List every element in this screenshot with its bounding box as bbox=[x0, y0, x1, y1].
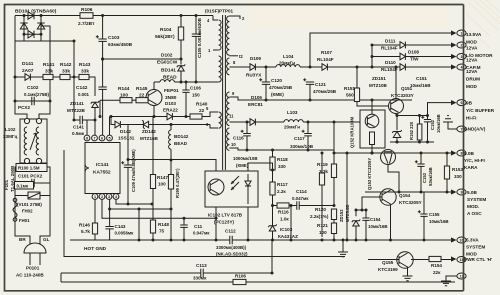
capacitor C153 bbox=[415, 160, 425, 166]
wire pin8 to D109 bbox=[229, 66, 250, 68]
svg-text:R116: R116 bbox=[278, 210, 289, 215]
wire pin8 link bbox=[86, 120, 88, 135]
connector pin PWR CTL bbox=[457, 257, 466, 263]
label D111 bbox=[385, 39, 396, 44]
connector pin 9V bbox=[457, 100, 466, 106]
svg-text:C120: C120 bbox=[271, 78, 282, 83]
node R118 bottom bbox=[271, 169, 274, 172]
capacitor C117 bbox=[302, 130, 312, 136]
wire C109 top bbox=[127, 125, 129, 166]
capacitor C106 bbox=[182, 90, 189, 92]
pin 10 label bbox=[231, 142, 236, 147]
svg-text:6: 6 bbox=[461, 101, 463, 105]
svg-text:SYSTEM: SYSTEM bbox=[466, 245, 485, 250]
svg-text:RU3YX: RU3YX bbox=[246, 73, 262, 78]
label CAPM bbox=[466, 65, 481, 70]
label C112 value bbox=[216, 245, 246, 250]
label C117 value bbox=[290, 144, 314, 149]
capacitor C11 bbox=[180, 225, 188, 227]
label 9V bbox=[466, 101, 473, 106]
label R142 bbox=[60, 62, 72, 68]
svg-text:D110: D110 bbox=[385, 60, 396, 65]
label C155 value bbox=[429, 219, 449, 224]
svg-text:MOD: MOD bbox=[466, 40, 478, 45]
capacitor C109 bbox=[121, 161, 132, 167]
svg-text:R106: R106 bbox=[81, 7, 93, 13]
pin3 tee dots bbox=[108, 203, 153, 211]
connector pin 12 bbox=[457, 273, 466, 279]
svg-text:C117: C117 bbox=[294, 136, 305, 141]
wire bias bottom rail bbox=[390, 141, 434, 143]
diode D109 bbox=[250, 64, 255, 71]
node R148 bottom bbox=[152, 239, 155, 242]
svg-text:20мкГн: 20мкГн bbox=[284, 125, 300, 130]
label FEP01 bbox=[164, 88, 179, 94]
resistor R106b bbox=[233, 279, 246, 284]
svg-text:R154: R154 bbox=[431, 263, 442, 268]
resistor R141 bbox=[43, 74, 53, 79]
capacitor C143 bbox=[105, 227, 113, 229]
svg-text:ZD142: ZD142 bbox=[142, 129, 156, 134]
wire R116-C114 bbox=[289, 205, 297, 207]
arrow 13.5VA bbox=[451, 30, 457, 35]
svg-text:KTC3203Y: KTC3203Y bbox=[391, 93, 414, 98]
svg-text:100: 100 bbox=[319, 230, 327, 235]
svg-text:C101 PCX2: C101 PCX2 bbox=[18, 174, 43, 179]
svg-text:R144: R144 bbox=[118, 86, 130, 92]
svg-text:10: 10 bbox=[231, 142, 236, 147]
svg-text:C102: C102 bbox=[27, 85, 39, 91]
wire R151 to Q151 base bbox=[357, 102, 389, 107]
label R120 bbox=[315, 207, 326, 212]
wire C103 bottom bbox=[102, 41, 104, 59]
wire LED bottom bbox=[247, 207, 249, 240]
label R106 bbox=[81, 7, 93, 13]
svg-text:ҒН02: ҒН02 bbox=[22, 209, 33, 214]
capacitor C152 bbox=[421, 116, 431, 122]
transformer primary winding mid bbox=[219, 56, 222, 82]
capacitor C101 bbox=[32, 179, 34, 187]
label R147 bbox=[157, 175, 168, 180]
label L102 bbox=[5, 127, 16, 132]
label C152 vertical bbox=[430, 119, 435, 130]
svg-text:КА431AZ: КА431AZ bbox=[278, 234, 298, 239]
resistor R140 bbox=[190, 114, 202, 119]
wire pin5 up bbox=[109, 117, 111, 136]
svg-text:MTZ16В: MTZ16В bbox=[140, 136, 159, 141]
svg-text:470мк/25В: 470мк/25В bbox=[269, 85, 293, 90]
label R153 bbox=[452, 167, 463, 172]
wire R142-R143 bbox=[70, 76, 79, 78]
wire zd152 link bbox=[356, 209, 366, 211]
wire ZD151 top bbox=[396, 116, 398, 131]
label R117 value bbox=[277, 189, 286, 194]
bridge diode top bbox=[28, 12, 34, 19]
svg-text:10мк/16В: 10мк/16В bbox=[429, 219, 449, 224]
svg-text:12VA: 12VA bbox=[466, 46, 478, 51]
label L102 value bbox=[3, 134, 18, 139]
label R140 value bbox=[199, 108, 205, 114]
label IC102 value bbox=[214, 220, 235, 225]
resistor R145 bbox=[136, 98, 148, 103]
wire D107 out bbox=[327, 66, 400, 68]
wire C117 bottom bbox=[307, 136, 309, 150]
label PCX2 bbox=[18, 105, 30, 110]
wire top DC rail right bbox=[93, 15, 213, 17]
resistor R147 bbox=[150, 175, 155, 189]
label BD142 bbox=[174, 134, 189, 139]
diode D110 bbox=[400, 64, 405, 71]
label IC102 bbox=[208, 213, 243, 218]
label R154 bbox=[431, 263, 442, 268]
svg-text:MOD: MOD bbox=[466, 84, 478, 89]
x139 nodes bbox=[138, 208, 141, 242]
resistor R117 bbox=[270, 182, 275, 195]
label C113 value bbox=[193, 276, 207, 281]
resistor R151 bbox=[354, 88, 359, 102]
wire R148 bottom bbox=[152, 233, 154, 240]
label C120 kme bbox=[271, 92, 284, 97]
wire 13.5VA branch bbox=[310, 33, 453, 67]
label C154 bbox=[370, 217, 381, 222]
label Q154 bbox=[399, 193, 411, 198]
capacitor C103 bbox=[96, 35, 107, 41]
connector pin 12VA drum bbox=[457, 64, 466, 70]
wire Q154 base bbox=[362, 197, 382, 210]
resistor R152 in box bbox=[370, 132, 375, 145]
resistor R106 bbox=[80, 13, 93, 19]
label 5.0V sys bbox=[467, 190, 478, 195]
svg-text:R100 1.5M: R100 1.5M bbox=[18, 166, 40, 171]
wire C116 top bbox=[246, 122, 248, 134]
wire opto emitter bbox=[215, 207, 217, 240]
wire aux winding bottom bbox=[210, 125, 218, 129]
svg-text:56k(2Вт): 56k(2Вт) bbox=[155, 34, 175, 40]
wire C103 top bbox=[102, 16, 104, 40]
ground bars Q155 bbox=[403, 276, 413, 281]
label R142 value bbox=[62, 69, 70, 75]
optocoupler IC102 box bbox=[205, 171, 258, 207]
wire to D111 bbox=[372, 44, 400, 46]
label Q155 value bbox=[378, 267, 398, 272]
svg-text:R121: R121 bbox=[317, 223, 328, 228]
diode D141 bbox=[25, 74, 30, 81]
svg-text:SYSTEM: SYSTEM bbox=[467, 197, 486, 202]
label C103 value bbox=[108, 42, 133, 48]
label C101 bbox=[18, 174, 43, 179]
resistor R148 bbox=[150, 220, 155, 233]
top rail junctions bbox=[101, 14, 197, 17]
wire c113 to ic103 bbox=[271, 240, 273, 273]
svg-text:HOT GND: HOT GND bbox=[84, 246, 107, 252]
label R118 bbox=[277, 157, 288, 162]
transformer pin 1 stub bbox=[213, 49, 219, 51]
svg-text:MTZ10В: MTZ10В bbox=[369, 83, 388, 88]
label C120 value bbox=[269, 85, 293, 90]
label IC103 value bbox=[278, 234, 298, 239]
transformer primary winding upper bbox=[219, 20, 222, 50]
label PWR CTL bbox=[464, 257, 492, 262]
ground symbol last pin bbox=[446, 276, 457, 281]
label C115 value bbox=[233, 156, 258, 161]
label P0101 value bbox=[16, 273, 44, 278]
wire C105 top bbox=[195, 16, 197, 35]
svg-text:5.3VA: 5.3VA bbox=[466, 238, 479, 243]
svg-text:ZD141: ZD141 bbox=[70, 101, 84, 106]
wire C142 rail top bbox=[102, 59, 104, 87]
wire to transformer pin 4 bbox=[213, 16, 218, 21]
wire R117 top bbox=[272, 170, 274, 182]
svg-text:(РС123Y): (РС123Y) bbox=[214, 220, 235, 225]
label 12VA capm bbox=[466, 58, 478, 63]
label GND AV bbox=[464, 127, 486, 132]
label F101 vertical bbox=[4, 179, 9, 190]
label Q151 value bbox=[391, 93, 414, 98]
label GL bbox=[43, 237, 50, 242]
diode D111 bbox=[400, 42, 405, 49]
label R118 value bbox=[278, 164, 286, 169]
opto junctions bbox=[215, 217, 250, 242]
svg-text:F101: F101 bbox=[4, 179, 9, 190]
wire pin10 return bbox=[229, 148, 334, 150]
wire C109 bottom bbox=[127, 167, 129, 204]
label D109 bbox=[250, 56, 261, 61]
capacitor C121 bbox=[303, 78, 314, 84]
svg-text:C153: C153 bbox=[422, 172, 427, 183]
svg-text:R119: R119 bbox=[317, 162, 328, 167]
node R104 D102 bbox=[101, 58, 182, 61]
wire R147-R148 bbox=[152, 189, 154, 221]
wire x139 stub bbox=[138, 209, 140, 240]
svg-text:10мк/16В: 10мк/16В bbox=[436, 114, 441, 133]
label R148 value bbox=[159, 229, 165, 234]
optocoupler IC102 led wires bbox=[247, 174, 249, 204]
wire 5V line bbox=[334, 152, 453, 154]
svg-text:BEAD: BEAD bbox=[174, 141, 188, 146]
node C121 top bbox=[309, 66, 312, 69]
svg-text:D106: D106 bbox=[251, 95, 262, 100]
wire C155 bottom bbox=[423, 216, 425, 240]
label ZD151 value bbox=[369, 83, 388, 88]
label C11 value bbox=[193, 231, 210, 236]
wire pin5 jog bbox=[111, 117, 115, 125]
wire C101 bridge bbox=[15, 182, 32, 184]
label R152 vertical bbox=[409, 121, 414, 140]
IC141 top pin 5 bbox=[107, 135, 113, 141]
label L103 value bbox=[284, 125, 300, 130]
label C106 value bbox=[192, 93, 200, 98]
label Q153 vertical bbox=[367, 158, 372, 190]
svg-text:0.0056мк: 0.0056мк bbox=[115, 231, 135, 236]
wire ZD151 bottom bbox=[396, 138, 398, 143]
bridge diode bottom bbox=[28, 31, 34, 38]
wire left bottom link bbox=[60, 273, 62, 282]
svg-text:Т1.6AL 250В: Т1.6AL 250В bbox=[10, 166, 15, 192]
wire R143 to Vcc node bbox=[89, 77, 95, 96]
node gnd stub bbox=[342, 239, 345, 242]
wire gate feed bbox=[100, 99, 120, 101]
label C114 bbox=[296, 189, 307, 194]
wire to L102 pin2 bbox=[39, 101, 50, 118]
label HI-FI bbox=[466, 116, 476, 121]
arrow 12VA motor bbox=[451, 42, 457, 47]
label C102 bbox=[27, 85, 39, 91]
label BD141 BEAD bbox=[163, 75, 177, 81]
svg-text:7: 7 bbox=[93, 137, 95, 141]
wire gate rail bbox=[99, 100, 101, 116]
svg-text:2.2к(1%): 2.2к(1%) bbox=[310, 214, 329, 219]
wire D109 out bbox=[255, 66, 266, 68]
svg-text:33k: 33k bbox=[45, 69, 53, 75]
diode D142 bbox=[115, 121, 120, 128]
pin 3 label bbox=[206, 122, 209, 127]
label C142 bbox=[76, 85, 88, 91]
capacitor C105 bbox=[192, 34, 200, 36]
wire R153 top bbox=[446, 153, 448, 166]
svg-text:22: 22 bbox=[199, 108, 205, 114]
svg-text:C121: C121 bbox=[315, 82, 326, 87]
svg-text:C142: C142 bbox=[76, 85, 88, 91]
wire Q151 emitter bbox=[395, 114, 397, 116]
transformer secondary winding 2 bbox=[227, 58, 230, 75]
svg-text:RL104F: RL104F bbox=[381, 67, 398, 72]
label R147 value bbox=[158, 182, 166, 187]
capacitor C114 bbox=[297, 201, 299, 209]
label P0101 bbox=[26, 266, 40, 271]
label A OSC bbox=[467, 211, 482, 216]
svg-text:3: 3 bbox=[461, 55, 463, 59]
label R119 value bbox=[319, 169, 328, 174]
label C112 part bbox=[216, 252, 248, 257]
wire C141 right bbox=[82, 119, 95, 121]
wire R120-R121 bbox=[333, 220, 335, 224]
node C120 top bbox=[265, 66, 268, 69]
svg-text:D111: D111 bbox=[385, 39, 396, 44]
pin 9 label bbox=[232, 91, 235, 96]
svg-text:10мк/16В: 10мк/16В bbox=[368, 224, 388, 229]
svg-text:C152: C152 bbox=[430, 119, 435, 130]
svg-text:(V101 275В): (V101 275В) bbox=[17, 202, 42, 207]
IC141 bottom pin 2 bbox=[99, 194, 105, 200]
wire L103 out bbox=[303, 121, 360, 123]
label D141 bbox=[22, 61, 34, 67]
label D106 value bbox=[248, 102, 263, 107]
wire opto collector bbox=[128, 160, 216, 172]
label BR bbox=[19, 237, 26, 242]
label C106 bbox=[190, 86, 201, 91]
node R199 bottom bbox=[170, 159, 173, 242]
choke L102 pin a bbox=[24, 118, 29, 123]
label 5.3VA bbox=[466, 238, 479, 243]
arrow 12VA capm bbox=[451, 54, 457, 59]
label SYSTEM bbox=[467, 197, 486, 202]
svg-text:0.047мк: 0.047мк bbox=[292, 196, 309, 201]
capacitor C155 bbox=[418, 210, 428, 216]
capacitor C112 bbox=[230, 236, 232, 244]
IC141 bottom pin 3 bbox=[106, 194, 112, 200]
svg-text:Q154: Q154 bbox=[399, 193, 411, 198]
choke L102 pin d bbox=[36, 158, 41, 163]
5V system junctions bbox=[398, 191, 449, 194]
svg-text:D142: D142 bbox=[120, 129, 131, 134]
common rail junctions bbox=[290, 239, 336, 242]
wire R199 bottom bbox=[170, 189, 172, 240]
label R144 bbox=[118, 86, 130, 92]
bridge corner junctions bbox=[23, 14, 43, 36]
wire R145-gate bbox=[147, 99, 149, 101]
capacitor C154 bbox=[362, 218, 369, 220]
svg-text:Y/C, HI-FI: Y/C, HI-FI bbox=[464, 158, 485, 163]
svg-text:C155: C155 bbox=[429, 212, 440, 217]
svg-text:T/W: T/W bbox=[410, 57, 419, 62]
label C143 bbox=[115, 224, 126, 229]
svg-text:33k: 33k bbox=[81, 69, 89, 75]
label C152 value vertical bbox=[436, 114, 441, 133]
arrow 5V yc bbox=[451, 150, 457, 155]
label C121 value bbox=[313, 89, 337, 94]
wire C106 top bbox=[185, 82, 187, 90]
label YC BUFFER bbox=[466, 108, 495, 113]
svg-text:R142: R142 bbox=[60, 62, 72, 68]
bridge BD101 outline bbox=[24, 16, 41, 35]
label R143 value bbox=[81, 69, 89, 75]
svg-text:Q155: Q155 bbox=[382, 260, 394, 265]
connector pin 5V system bbox=[457, 189, 466, 195]
wire D111 out bbox=[405, 44, 453, 46]
connector pin 5.3VA bbox=[457, 237, 466, 243]
wire C11 bottom bbox=[183, 227, 185, 240]
5V rail junctions bbox=[246, 121, 336, 124]
wire R153 bottom bbox=[446, 179, 448, 192]
D108 junction bbox=[371, 44, 374, 59]
5V gnd junctions bbox=[246, 149, 310, 152]
svg-text:2: 2 bbox=[461, 44, 463, 48]
label SYSTEM2 bbox=[466, 245, 485, 250]
svg-text:330: 330 bbox=[454, 174, 462, 179]
label 12VA drum bbox=[466, 69, 478, 74]
IC141 box bbox=[85, 143, 120, 194]
svg-text:D108: D108 bbox=[408, 50, 419, 55]
wire C154 top bbox=[365, 210, 367, 218]
node fb x334 bbox=[333, 204, 336, 207]
wire ZD152 bottom bbox=[355, 226, 357, 240]
wire AC to D141 bbox=[15, 76, 25, 78]
startup line junctions bbox=[14, 76, 76, 79]
wire C121 bottom bbox=[309, 84, 311, 100]
svg-text:560: 560 bbox=[346, 93, 354, 98]
svg-text:11: 11 bbox=[229, 114, 234, 119]
capacitor C102 bbox=[32, 97, 34, 105]
wire R152 top bbox=[419, 116, 421, 125]
wire D141-R141 bbox=[30, 76, 43, 78]
svg-text:2.7/2Вт: 2.7/2Вт bbox=[78, 21, 95, 27]
node R117 IC103 bbox=[271, 204, 274, 207]
svg-text:0.1мк: 0.1мк bbox=[17, 183, 29, 188]
label D102 bbox=[161, 53, 173, 59]
label 12VA motor bbox=[466, 46, 478, 51]
label R121 bbox=[317, 223, 328, 228]
svg-text:GND(A/V): GND(A/V) bbox=[464, 127, 486, 132]
wire bridge neg stub bbox=[40, 34, 42, 41]
wire 5V system bbox=[365, 191, 453, 193]
wire C155 top bbox=[423, 192, 425, 214]
resistor R142 bbox=[60, 74, 70, 79]
label D111 value bbox=[381, 46, 398, 51]
transistor Q153 bbox=[381, 150, 396, 165]
label C113 bbox=[196, 263, 207, 268]
svg-text:(NK.AD.SD332): (NK.AD.SD332) bbox=[216, 252, 248, 257]
label D103 value bbox=[163, 108, 178, 113]
